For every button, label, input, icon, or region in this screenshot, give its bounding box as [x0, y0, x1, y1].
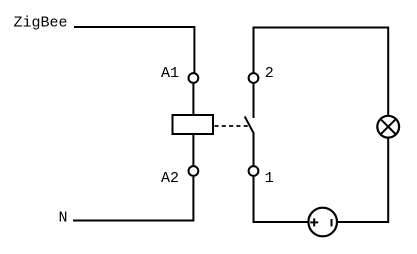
- terminal 2: [249, 73, 259, 83]
- terminal A1: [189, 73, 199, 83]
- wire A1 to coil: [192, 84, 194, 114]
- svg-text:A2: A2: [161, 170, 179, 187]
- svg-text:2: 2: [265, 65, 274, 82]
- lamp L1 cross: [380, 118, 397, 135]
- wire battery to lamp: [338, 139, 388, 223]
- wire ZigBee to coil top corner: [74, 27, 194, 73]
- lamp L1 circle: [377, 116, 399, 138]
- battery minus bar: [331, 219, 333, 226]
- battery / DC source B1: [308, 208, 337, 237]
- svg-text:N: N: [59, 210, 68, 227]
- wire terminal 2 to switch pivot: [253, 84, 255, 118]
- wire A2 to N: [73, 177, 193, 221]
- battery plus sign: [310, 218, 318, 226]
- wire terminal 1 down to battery: [254, 177, 308, 222]
- svg-text:ZigBee: ZigBee: [14, 15, 68, 32]
- mechanical link dashed line: [215, 125, 249, 127]
- wire terminal 2 up and across top to lamp: [254, 28, 389, 115]
- wire switch to terminal 1: [253, 133, 255, 166]
- switch S1 blade: [245, 117, 254, 134]
- relay coil K1: [173, 115, 214, 134]
- wire coil to A2: [192, 134, 194, 166]
- svg-text:1: 1: [265, 170, 274, 187]
- terminal 1: [249, 166, 259, 176]
- svg-text:A1: A1: [161, 65, 179, 82]
- terminal A2: [189, 166, 199, 176]
